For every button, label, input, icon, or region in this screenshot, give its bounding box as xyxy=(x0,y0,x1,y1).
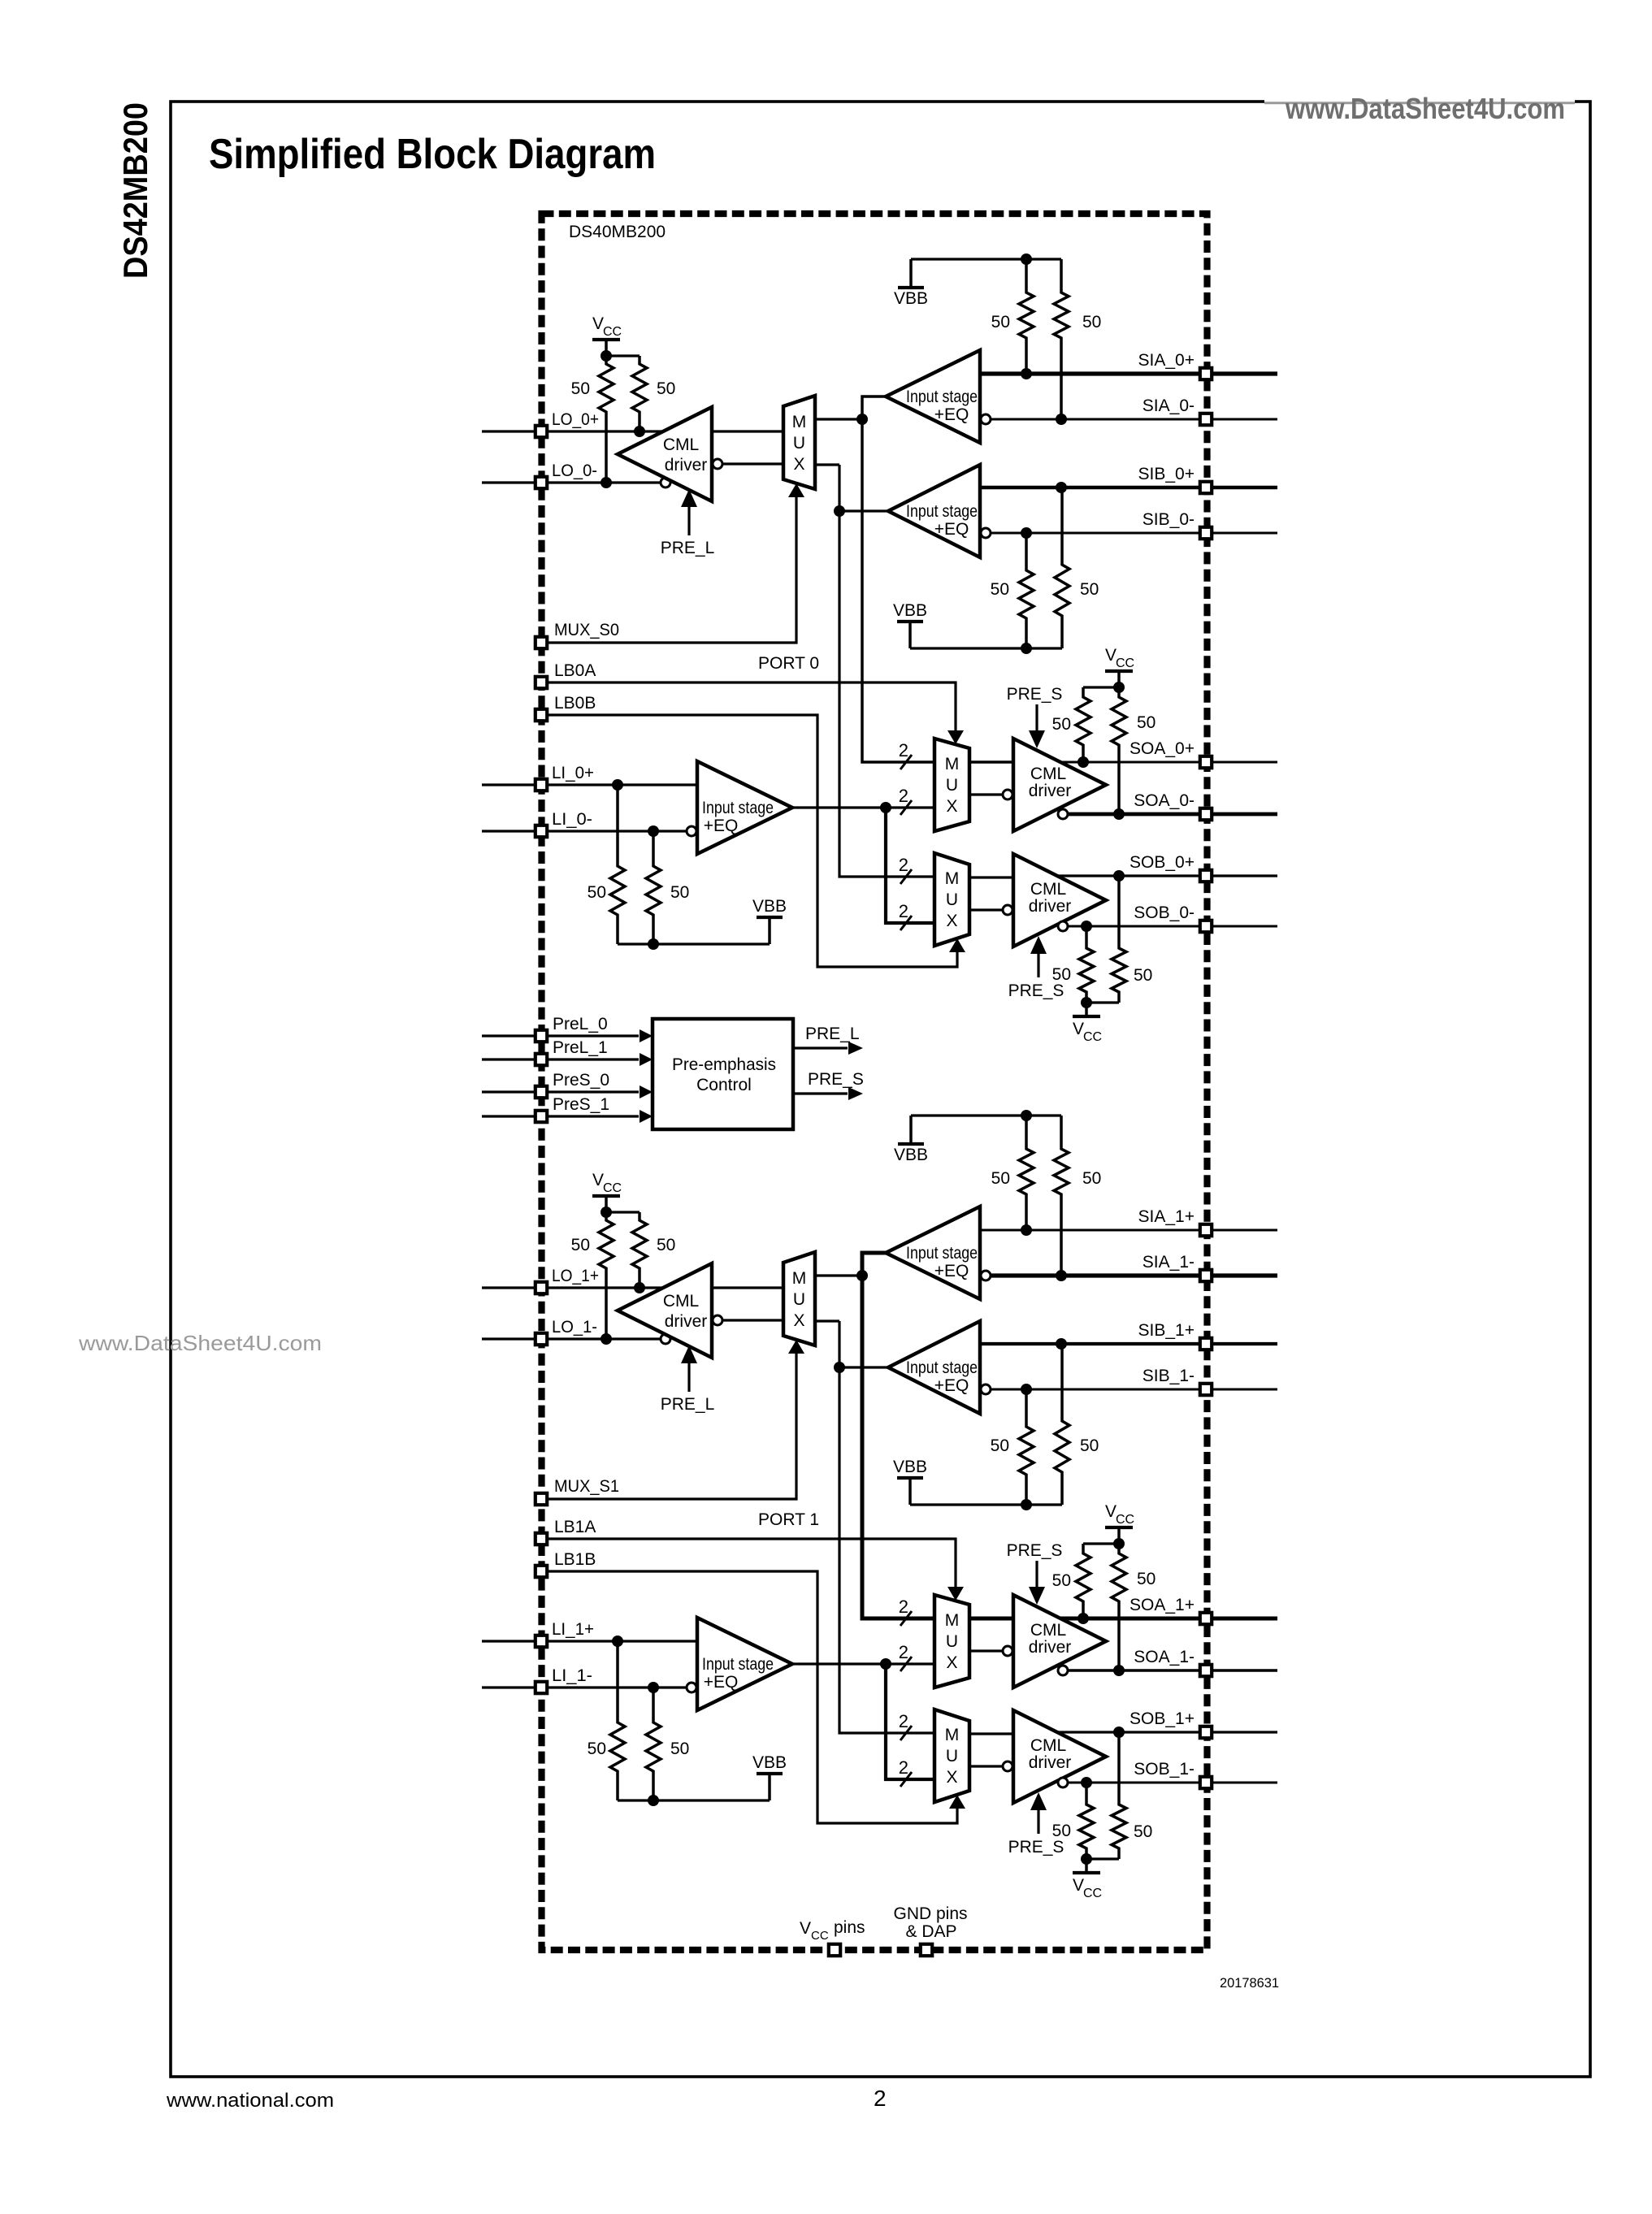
wire SIB_1 receiver output bus xyxy=(839,1321,934,1733)
wire PRE_L output net xyxy=(793,1046,848,1049)
svg-text:driver: driver xyxy=(1029,897,1072,916)
svg-text:V: V xyxy=(1073,1020,1084,1038)
bus width 2 marker xyxy=(899,855,912,884)
resistor 50 (SOA_0+ termination) xyxy=(1076,687,1090,762)
svg-text:DS42MB200: DS42MB200 xyxy=(116,102,154,279)
wire SIB_1 to loop-out MUX xyxy=(815,1319,839,1322)
svg-text:+EQ: +EQ xyxy=(934,520,969,539)
junction R on SIA_0- xyxy=(1056,414,1067,425)
svg-text:LI_1+: LI_1+ xyxy=(552,1620,594,1639)
junction VBB rail SIA_0 xyxy=(1021,253,1032,265)
wire VCC to R2 top LO_1 xyxy=(606,1211,640,1213)
svg-text:driver: driver xyxy=(1029,1638,1072,1657)
svg-text:50: 50 xyxy=(1134,1822,1152,1841)
wire LI_0 output to SOB MUX xyxy=(886,808,934,923)
wire LO_0- net xyxy=(482,481,660,483)
junction LI_0 termination xyxy=(648,938,659,950)
svg-text:LI_0-: LI_0- xyxy=(552,810,592,829)
arrow select into loop-out MUX 0 xyxy=(788,483,804,497)
wire SIB_0 receiver output bus xyxy=(839,465,934,877)
watermark www.DataSheet4U.com (top) xyxy=(1264,86,1575,125)
svg-text:CML: CML xyxy=(1030,1621,1066,1640)
wire PreS_0 net xyxy=(482,1090,639,1093)
input stage +EQ U-SIB1 xyxy=(888,1321,980,1414)
wire SIB_1+ net xyxy=(980,1342,1277,1345)
svg-text:50: 50 xyxy=(1052,1571,1071,1590)
wire SOB_1- net xyxy=(1069,1782,1277,1784)
wire SIB_1 apex stub xyxy=(839,1366,888,1368)
svg-text:VBB: VBB xyxy=(893,601,927,620)
inverting input bubble SIB_1- xyxy=(981,1384,991,1394)
wire LI_1+ net xyxy=(482,1640,697,1642)
junction R on SOB_1- xyxy=(1081,1777,1092,1788)
wire SIA_1- net xyxy=(991,1273,1277,1277)
svg-text:PreS_0: PreS_0 xyxy=(553,1071,609,1090)
pin SIB_1- xyxy=(1200,1384,1212,1395)
svg-text:SOA_0+: SOA_0+ xyxy=(1130,739,1195,758)
wire SOB_0- net xyxy=(1069,925,1277,928)
pin LB0A xyxy=(535,677,547,688)
bus width 2 marker xyxy=(899,1642,912,1671)
wire SIB_1- net xyxy=(991,1389,1277,1391)
svg-text:SIA_1-: SIA_1- xyxy=(1143,1253,1195,1272)
svg-text:MUX_S1: MUX_S1 xyxy=(554,1477,619,1496)
CML driver U-LO1 (loop output driver) xyxy=(618,1263,712,1358)
svg-text:X: X xyxy=(946,1768,957,1787)
input stage +EQ U-LI1 xyxy=(697,1618,792,1710)
mux SOB_0 output MUX xyxy=(934,853,969,946)
svg-text:driver: driver xyxy=(1029,782,1072,800)
svg-text:2: 2 xyxy=(899,1711,908,1731)
junction SIA_0 bus to loop-out MUX xyxy=(856,414,868,425)
arrow LB0B select into SOB MUX xyxy=(949,938,965,952)
junction R on LI_1- xyxy=(648,1682,659,1693)
wire VBB rail SIB_0 xyxy=(910,647,1062,649)
power VCC (SOA_0 terminations) xyxy=(1105,646,1134,687)
wire SIB_0 to loop-out MUX xyxy=(815,463,839,466)
svg-text:50: 50 xyxy=(1052,715,1071,734)
label Input stage +EQ xyxy=(906,388,978,424)
pin MUX_S1 xyxy=(535,1493,547,1505)
svg-text:CC: CC xyxy=(1083,1030,1102,1044)
svg-text:CML: CML xyxy=(663,435,699,454)
svg-text:PRE_L: PRE_L xyxy=(661,539,715,557)
input stage +EQ U-SIB0 xyxy=(888,465,980,557)
svg-text:PRE_S: PRE_S xyxy=(1008,981,1064,1000)
svg-text:SIB_1-: SIB_1- xyxy=(1143,1367,1195,1385)
label CML driver xyxy=(663,435,707,474)
wire SOB MUX to CML (complement) xyxy=(969,908,1002,911)
pin LB0B xyxy=(535,709,547,721)
svg-text:SIA_0+: SIA_0+ xyxy=(1138,351,1195,370)
inverting output bubble LO_0- xyxy=(661,478,670,487)
svg-text:50: 50 xyxy=(1052,965,1071,984)
resistor 50 (SOA_1- termination) xyxy=(1112,1544,1126,1670)
arrow PreL_1 into control block xyxy=(640,1053,653,1066)
power VCC (SOB_0 terminations) xyxy=(1073,1003,1102,1044)
wire LO_0+ net xyxy=(482,430,663,432)
junction R on LI_0+ xyxy=(612,779,623,791)
svg-text:Simplified Block Diagram: Simplified Block Diagram xyxy=(209,131,656,178)
label Input stage +EQ xyxy=(702,799,774,835)
svg-text:PreS_1: PreS_1 xyxy=(553,1095,609,1114)
svg-text:GND pins: GND pins xyxy=(893,1904,967,1923)
svg-text:V: V xyxy=(592,314,604,333)
svg-text:50: 50 xyxy=(991,1436,1009,1455)
wire LI_0 termination to VBB xyxy=(618,942,770,945)
svg-text:Input stage: Input stage xyxy=(906,388,978,406)
wire VBB rail SIA_0 xyxy=(911,258,1061,260)
pin LI_0- xyxy=(535,825,547,837)
arrow select into loop-out MUX 1 xyxy=(788,1340,804,1354)
svg-text:LO_1-: LO_1- xyxy=(552,1318,597,1337)
label Input stage +EQ xyxy=(906,502,978,539)
inverting output bubble LO_1- xyxy=(661,1334,670,1344)
wire MUX_S1 select net xyxy=(548,1354,796,1499)
svg-text:LB1B: LB1B xyxy=(554,1550,596,1569)
resistor 50 (SIB_1+ termination) xyxy=(1055,1344,1069,1505)
svg-text:50: 50 xyxy=(571,1236,590,1254)
svg-text:50: 50 xyxy=(991,580,1009,599)
junction SOB_1 termination xyxy=(1081,1853,1092,1865)
resistor 50 (SOB_0+ termination) xyxy=(1112,876,1126,1003)
junction SIB_1 bus xyxy=(834,1362,845,1373)
bus width 2 marker xyxy=(899,1711,912,1740)
power VCC (SOB_1 terminations) xyxy=(1073,1859,1102,1900)
junction LI_0 output bus xyxy=(880,802,891,813)
svg-text:V: V xyxy=(800,1919,811,1938)
svg-text:V: V xyxy=(1105,1502,1117,1521)
arrow PreL_0 into control block xyxy=(640,1029,653,1042)
inverting input bubble CML SOA_0 xyxy=(1003,790,1012,799)
power VCC (LO_0 terminations) xyxy=(592,314,622,356)
svg-text:50: 50 xyxy=(1082,1169,1101,1188)
junction R on SIA_1+ xyxy=(1021,1224,1032,1236)
pin LB1A xyxy=(535,1533,547,1545)
label GND pins & DAP xyxy=(893,1904,967,1941)
svg-text:CML: CML xyxy=(1030,1736,1066,1755)
svg-text:CML: CML xyxy=(1030,765,1066,783)
resistor 50 (LI_1- termination) xyxy=(646,1688,661,1800)
svg-text:U: U xyxy=(946,1632,958,1651)
resistor 50 (LI_0- termination) xyxy=(646,831,661,944)
inverting input bubble CML LO_1 xyxy=(713,1315,722,1325)
svg-text:2: 2 xyxy=(874,2086,887,2111)
pin SOB_0+ xyxy=(1200,870,1212,882)
label Input stage +EQ xyxy=(906,1244,978,1280)
svg-text:M: M xyxy=(945,869,960,888)
svg-text:driver: driver xyxy=(1029,1753,1072,1772)
resistor 50 (SOB_1- termination) xyxy=(1079,1783,1094,1859)
svg-text:M: M xyxy=(945,1611,960,1630)
wire SIA_0- net xyxy=(991,418,1277,421)
pin LI_1- xyxy=(535,1682,547,1693)
pin PreS_1 xyxy=(535,1111,547,1122)
wire SOB_0 termination rail xyxy=(1086,1001,1119,1003)
wire SOB_1 termination rail xyxy=(1086,1857,1119,1860)
resistor 50 (LI_0+ termination) xyxy=(610,785,625,944)
wire VCC rail SOA_0 xyxy=(1083,686,1119,688)
junction VCC node LO_0 xyxy=(601,350,612,362)
junction SIB_0 bus xyxy=(834,505,845,517)
svg-text:VBB: VBB xyxy=(893,1458,927,1476)
junction R on SOA_0- xyxy=(1113,808,1125,820)
resistor 50 (SOA_0- termination) xyxy=(1112,687,1126,814)
wire VCC to R2 top LO_0 xyxy=(606,354,640,357)
svg-text:PRE_S: PRE_S xyxy=(808,1070,864,1089)
input stage +EQ U-SIA1 xyxy=(886,1207,980,1299)
svg-text:M: M xyxy=(945,755,960,773)
pin SIB_1+ xyxy=(1200,1338,1212,1350)
svg-text:CML: CML xyxy=(663,1292,699,1311)
wire SIB_0- net xyxy=(991,532,1277,535)
junction R on SOB_0- xyxy=(1081,921,1092,932)
svg-text:50: 50 xyxy=(991,1169,1010,1188)
svg-text:U: U xyxy=(793,1290,805,1309)
svg-text:Input stage: Input stage xyxy=(702,799,774,817)
mux SOA_0 output MUX xyxy=(934,739,969,831)
pin SOB_1+ xyxy=(1200,1727,1212,1738)
svg-text:VBB: VBB xyxy=(752,897,787,916)
svg-text:LO_0-: LO_0- xyxy=(552,461,597,480)
wire SOB MUX to CML (true) xyxy=(969,876,1013,878)
pin LO_0+ xyxy=(535,426,547,437)
inverting input bubble CML LO_0 xyxy=(713,459,722,469)
power VCC (SOA_1 terminations) xyxy=(1105,1502,1134,1544)
pin LI_0+ xyxy=(535,779,547,791)
svg-text:PORT 0: PORT 0 xyxy=(758,654,819,673)
svg-text:driver: driver xyxy=(665,456,708,474)
wire LI_0 output bus xyxy=(792,806,934,808)
junction R on SIA_0+ xyxy=(1021,368,1032,379)
pin MUX_S0 xyxy=(535,637,547,648)
resistor 50 (SOA_1+ termination) xyxy=(1076,1544,1090,1618)
input stage +EQ U-LI0 xyxy=(697,761,792,854)
bus width 2 marker xyxy=(899,740,912,769)
junction R on SOB_1+ xyxy=(1113,1727,1125,1738)
label Input stage +EQ xyxy=(906,1358,978,1395)
wire LB1A select net xyxy=(548,1539,956,1587)
wire PreL_0 net xyxy=(482,1034,639,1037)
svg-text:Input stage: Input stage xyxy=(702,1655,774,1674)
svg-text:driver: driver xyxy=(665,1312,708,1331)
arrow LB1A select into SOA MUX xyxy=(947,1587,964,1601)
inverting input bubble CML SOB_0 xyxy=(1003,905,1012,915)
svg-text:PreL_0: PreL_0 xyxy=(553,1015,608,1033)
svg-text:www.DataSheet4U.com: www.DataSheet4U.com xyxy=(1285,92,1565,125)
wire VCC rail SOA_1 xyxy=(1083,1542,1119,1545)
mux loop-out MUX port 1 xyxy=(783,1252,815,1345)
pin LO_1- xyxy=(535,1333,547,1345)
wire LI_1- net xyxy=(482,1686,686,1688)
svg-text:50: 50 xyxy=(657,1236,675,1254)
wire LI_1 output to SOB MUX xyxy=(886,1664,934,1779)
svg-text:CC: CC xyxy=(811,1929,829,1943)
arrow PRE_S into CML SOA_0 xyxy=(1029,704,1045,748)
resistor 50 (LO_1- termination) xyxy=(599,1212,614,1339)
svg-text:SOB_0+: SOB_0+ xyxy=(1130,853,1195,872)
inverting input bubble CML SOB_1 xyxy=(1003,1761,1012,1771)
Pre-emphasis Control block U-PEC xyxy=(653,1019,793,1129)
wire SIA_0+ net xyxy=(980,371,1277,375)
power VBB (SIB_1 terminations) xyxy=(893,1458,927,1505)
wire SOA MUX to CML (complement) xyxy=(969,1649,1002,1652)
svg-text:X: X xyxy=(793,455,804,474)
pin SIB_0+ xyxy=(1200,482,1212,493)
pin GND pins and DAP xyxy=(921,1944,932,1956)
bus width 2 marker xyxy=(899,1597,912,1626)
pin SOA_1+ xyxy=(1200,1613,1212,1624)
svg-text:50: 50 xyxy=(571,379,590,398)
svg-text:SIA_1+: SIA_1+ xyxy=(1138,1207,1195,1226)
pin SOB_0- xyxy=(1200,921,1212,932)
svg-text:Control: Control xyxy=(696,1076,752,1094)
svg-text:Pre-emphasis: Pre-emphasis xyxy=(672,1055,776,1074)
junction R on SOB_0+ xyxy=(1113,870,1125,882)
svg-text:50: 50 xyxy=(1080,580,1099,599)
svg-text:50: 50 xyxy=(1080,1436,1099,1455)
svg-text:PRE_L: PRE_L xyxy=(805,1025,860,1043)
junction VCC rail SOA_1 xyxy=(1113,1538,1125,1549)
inverting output bubble SOA_1- xyxy=(1058,1666,1068,1675)
pin SIA_0+ xyxy=(1200,368,1212,379)
power VBB (SIA_0 terminations) xyxy=(894,259,928,308)
svg-text:LB1A: LB1A xyxy=(554,1518,596,1536)
arrow PRE_L output xyxy=(848,1042,863,1055)
wire LI_0- net xyxy=(482,830,686,832)
pin VCC pins xyxy=(829,1944,840,1956)
svg-text:SIB_1+: SIB_1+ xyxy=(1138,1321,1195,1340)
svg-text:V: V xyxy=(592,1171,604,1189)
wire PRE_S output net xyxy=(793,1092,848,1094)
power VCC (LO_1 terminations) xyxy=(592,1171,622,1212)
resistor 50 (SOB_1+ termination) xyxy=(1112,1732,1126,1859)
wire LO_1+ net xyxy=(482,1286,663,1289)
wire MUX to CML LO_1 (complement) xyxy=(723,1319,783,1321)
junction VBB rail SIA_1 xyxy=(1021,1110,1032,1121)
junction R on SOA_1- xyxy=(1113,1665,1125,1676)
svg-text:+EQ: +EQ xyxy=(704,817,739,835)
resistor 50 (SIB_0+ termination) xyxy=(1055,487,1069,648)
svg-text:+EQ: +EQ xyxy=(704,1673,739,1692)
junction R on LO_0+ xyxy=(634,426,645,437)
resistor 50 (SIB_1- termination) xyxy=(1019,1389,1034,1505)
pin PreL_0 xyxy=(535,1030,547,1042)
input stage +EQ U-SIA0 xyxy=(886,350,980,443)
svg-text:PRE_S: PRE_S xyxy=(1007,1541,1063,1560)
svg-text:CC: CC xyxy=(1116,1513,1134,1527)
svg-text:CC: CC xyxy=(603,1181,622,1195)
resistor 50 (SIA_0- termination) xyxy=(1054,259,1069,419)
svg-text:SIB_0+: SIB_0+ xyxy=(1138,465,1195,483)
inverting input bubble SIA_0- xyxy=(981,414,991,424)
svg-text:CC: CC xyxy=(603,325,622,339)
svg-text:U: U xyxy=(793,434,805,453)
mux SOA_1 output MUX xyxy=(934,1595,969,1688)
inverting input bubble CML SOA_1 xyxy=(1003,1646,1012,1656)
wire VBB rail SIA_1 xyxy=(911,1114,1061,1116)
inverting output bubble SOB_1- xyxy=(1058,1778,1068,1787)
svg-text:2: 2 xyxy=(899,1642,908,1662)
wire LI_1 termination to VBB xyxy=(618,1799,770,1801)
wire SIA_1 receiver output bus xyxy=(862,1253,934,1618)
wire MUX to CML LO_0 (complement) xyxy=(723,462,783,465)
junction R on SIB_0+ xyxy=(1056,482,1067,493)
svg-text:X: X xyxy=(793,1311,804,1330)
wire LB0A select net xyxy=(548,682,956,730)
junction VBB rail SIB_0 xyxy=(1021,643,1032,654)
pin SOB_1- xyxy=(1200,1777,1212,1788)
svg-text:VBB: VBB xyxy=(894,289,928,308)
pin PreL_1 xyxy=(535,1054,547,1065)
label CML driver xyxy=(663,1292,707,1331)
wire SOB MUX to CML (true) xyxy=(969,1732,1013,1735)
svg-text:SOA_1+: SOA_1+ xyxy=(1130,1596,1195,1614)
label CML driver xyxy=(1029,1736,1072,1772)
junction R on SOA_1+ xyxy=(1077,1613,1089,1624)
resistor 50 (SIB_0- termination) xyxy=(1019,533,1034,648)
junction SOB_0 termination xyxy=(1081,997,1092,1008)
svg-text:LB0B: LB0B xyxy=(554,694,596,713)
bus width 2 marker xyxy=(899,1757,912,1787)
svg-text:CC: CC xyxy=(1083,1887,1102,1900)
svg-text:50: 50 xyxy=(588,883,606,902)
wire SOA MUX to CML (complement) xyxy=(969,793,1002,795)
svg-text:VBB: VBB xyxy=(752,1753,787,1772)
wire MUX_S0 select net xyxy=(548,497,796,643)
pin SOA_0- xyxy=(1200,808,1212,820)
svg-text:& DAP: & DAP xyxy=(905,1922,956,1941)
wire VBB rail SIB_1 xyxy=(910,1503,1062,1506)
arrow PRE_S into CML SOB_1 xyxy=(1030,1792,1047,1834)
junction R on SOA_0+ xyxy=(1077,756,1089,768)
wire SOA_1- net xyxy=(1069,1669,1277,1672)
resistor 50 (SOB_0- termination) xyxy=(1079,926,1094,1003)
svg-text:PRE_L: PRE_L xyxy=(661,1395,715,1414)
junction R on LI_1+ xyxy=(612,1636,623,1647)
CML driver U-SOA1 xyxy=(1013,1595,1106,1688)
wire SOA_1+ net xyxy=(1060,1617,1277,1621)
svg-text:U: U xyxy=(946,1747,958,1766)
pin SOA_0+ xyxy=(1200,756,1212,768)
junction R on SIB_0- xyxy=(1021,527,1032,539)
resistor 50 (LI_1+ termination) xyxy=(610,1641,625,1800)
svg-text:50: 50 xyxy=(670,1740,689,1758)
svg-text:LO_0+: LO_0+ xyxy=(552,410,599,429)
junction LI_1 termination xyxy=(648,1795,659,1806)
svg-text:2: 2 xyxy=(899,855,908,875)
power VBB (SIB_0 terminations) xyxy=(893,601,927,648)
label VCC pins xyxy=(800,1918,865,1943)
arrow PRE_S into CML SOA_1 xyxy=(1029,1561,1045,1605)
svg-text:CC: CC xyxy=(1116,656,1134,670)
wire LI_1 output bus xyxy=(792,1662,934,1665)
wire SIA_0 to loop-out MUX xyxy=(815,418,858,420)
wire MUX to CML LO_0 (true) xyxy=(712,430,783,432)
inverting output bubble SOB_0- xyxy=(1058,921,1068,931)
svg-text:U: U xyxy=(946,776,958,795)
wire LB0B select net xyxy=(548,715,957,967)
svg-text:MUX_S0: MUX_S0 xyxy=(554,621,619,639)
svg-text:M: M xyxy=(792,1269,807,1288)
svg-text:PreL_1: PreL_1 xyxy=(553,1038,608,1057)
wire SIA_1 to loop-out MUX xyxy=(815,1274,858,1276)
svg-text:PORT 1: PORT 1 xyxy=(758,1510,819,1529)
svg-text:PRE_S: PRE_S xyxy=(1008,1838,1064,1857)
svg-text:M: M xyxy=(945,1726,960,1744)
resistor 50 (LO_0- termination) xyxy=(599,356,614,483)
pin LB1B xyxy=(535,1566,547,1577)
